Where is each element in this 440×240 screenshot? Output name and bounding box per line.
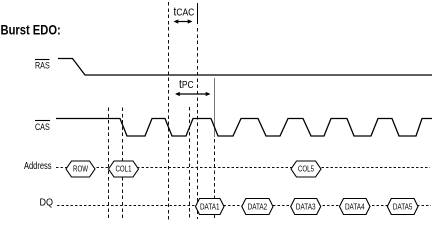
svg-text:tCAC: tCAC (174, 6, 195, 19)
svg-text:DATA3: DATA3 (296, 201, 316, 211)
svg-text:tPC: tPC (179, 78, 194, 91)
svg-text:ROW: ROW (73, 164, 88, 174)
svg-text:RAS: RAS (35, 61, 50, 71)
svg-text:DATA5: DATA5 (393, 201, 413, 211)
svg-text:DQ: DQ (40, 197, 53, 209)
svg-text:DATA4: DATA4 (345, 201, 365, 211)
svg-text:DATA2: DATA2 (248, 201, 268, 211)
svg-text:COL1: COL1 (116, 164, 132, 174)
svg-text:CAS: CAS (35, 122, 50, 132)
svg-text:Address: Address (24, 160, 52, 171)
svg-text:DATA1: DATA1 (200, 201, 220, 211)
svg-text:Burst EDO:: Burst EDO: (1, 22, 61, 37)
svg-text:COL5: COL5 (298, 164, 314, 174)
